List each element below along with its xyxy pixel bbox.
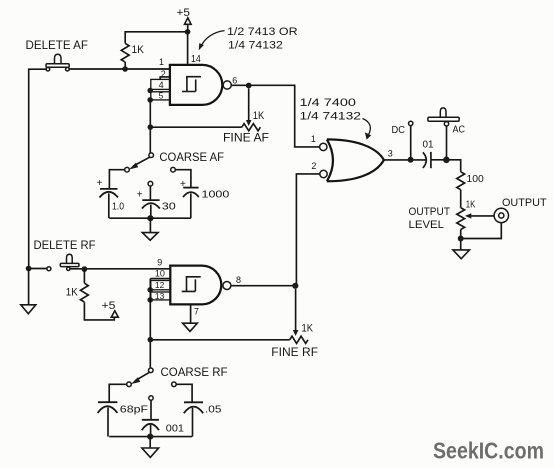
wire coarse AF bottom rail — [109, 217, 190, 219]
svg-text:1K: 1K — [466, 198, 476, 210]
wire U2 input 2 from U3 output — [296, 174, 319, 286]
node R1/pin1 — [122, 66, 128, 72]
resistor R4 1K (RF pull-up) — [66, 269, 89, 302]
capacitor C5 68pF — [98, 402, 149, 436]
svg-text:10: 10 — [155, 269, 165, 279]
svg-text:LEVEL: LEVEL — [409, 219, 445, 231]
wire coarse AF mid branch — [149, 186, 151, 200]
annotation arrow to U1 — [199, 31, 225, 51]
node FINE RF tap — [148, 337, 154, 343]
ground AF caps — [142, 218, 158, 240]
svg-text:.05: .05 — [205, 403, 222, 415]
node junction at +5 feed — [185, 29, 191, 35]
pin 9 label — [157, 258, 162, 268]
ground left rail — [21, 269, 36, 314]
label AC — [453, 123, 466, 135]
resistor R2 100 — [457, 172, 484, 190]
label 1/4 74132 (OR gate) — [300, 110, 362, 122]
svg-text:6: 6 — [232, 75, 237, 85]
svg-text:DELETE RF: DELETE RF — [34, 240, 96, 252]
resistor FINE AF 1K rheostat — [242, 110, 265, 131]
svg-text:5: 5 — [159, 91, 164, 101]
node DC tap — [408, 157, 414, 163]
wire pot bottom — [460, 230, 462, 250]
resistor R1 1K pull-up — [121, 43, 144, 62]
wire to RF button terminal — [29, 268, 47, 270]
node AC tap — [443, 157, 450, 164]
svg-text:30: 30 — [162, 201, 176, 213]
pin 4 boxed lead — [151, 79, 170, 89]
svg-text:DC: DC — [392, 124, 406, 136]
slide switch DC/AC — [428, 108, 459, 121]
wire U1 output to OR gate input 1 — [231, 85, 319, 147]
label DELETE AF — [26, 40, 89, 52]
op-amp U2 negative-OR gate 7400 — [327, 139, 384, 181]
pin 5 boxed lead — [151, 91, 170, 101]
svg-text:SeekIC.com: SeekIC.com — [433, 438, 544, 464]
label FINE AF — [223, 132, 269, 144]
pin 14 label — [191, 53, 201, 65]
node U3 output — [292, 283, 298, 289]
capacitor C3 1000 — [180, 179, 229, 218]
op-amp U1 Schmitt NAND 7413 body — [170, 65, 222, 105]
selector switch COARSE AF — [125, 153, 176, 186]
U3 output bubble — [223, 282, 231, 290]
node 1K RF tap — [82, 266, 88, 272]
wire FINE AF — [150, 126, 242, 128]
label COARSE AF — [159, 152, 224, 164]
svg-text:68pF: 68pF — [120, 404, 148, 416]
label OUTPUT LEVEL — [409, 206, 451, 231]
DC terminal — [409, 121, 413, 160]
svg-text:9: 9 — [157, 258, 162, 268]
svg-text:1K: 1K — [66, 286, 78, 298]
pin 2 label OR — [311, 161, 316, 171]
node pin12 junction — [147, 287, 153, 293]
node U1 output — [246, 83, 252, 89]
node RF cap common — [147, 434, 153, 440]
svg-text:1K: 1K — [132, 44, 145, 56]
svg-text:COARSE AF: COARSE AF — [159, 152, 224, 164]
pin 1 label — [159, 57, 164, 67]
node pin13 junction — [147, 297, 153, 303]
wire U3 output to node — [231, 285, 295, 287]
svg-text:DELETE AF: DELETE AF — [26, 40, 89, 52]
svg-text:COARSE RF: COARSE RF — [161, 367, 228, 379]
wire R1 bottom to pin1 wire — [124, 62, 126, 69]
label COARSE RF — [161, 367, 228, 379]
AC terminal — [444, 122, 448, 160]
wire input rail U1 down to coarse switch — [149, 100, 151, 153]
pin 7 wire — [191, 304, 199, 323]
+5 supply arrow (RF) — [102, 300, 119, 317]
output jack J1 — [494, 208, 508, 222]
node pot/jack ground — [458, 236, 464, 242]
wiper arrow FINE AF — [246, 89, 252, 127]
svg-text:1: 1 — [159, 57, 164, 67]
node pin5 junction — [147, 97, 153, 103]
svg-text:7: 7 — [194, 306, 199, 316]
label OUTPUT — [502, 197, 547, 209]
svg-text:+: + — [97, 178, 103, 189]
wire input rail U3 down — [149, 279, 151, 368]
svg-text:1.0: 1.0 — [112, 201, 124, 213]
svg-text:13: 13 — [155, 291, 165, 301]
svg-text:1/4 7400: 1/4 7400 — [300, 97, 357, 109]
label DC — [392, 124, 406, 136]
node pin4 junction — [147, 88, 153, 94]
pot wiper arrow — [465, 213, 494, 218]
svg-text:FINE AF: FINE AF — [223, 132, 269, 144]
wire pin 14 supply — [187, 32, 189, 65]
svg-text:01: 01 — [423, 138, 434, 150]
svg-text:+5: +5 — [102, 300, 116, 312]
U1 output bubble — [223, 81, 231, 89]
annotation arrow to U2 — [363, 119, 372, 140]
svg-text:1/4 74132: 1/4 74132 — [300, 110, 362, 122]
pin 13 boxed lead — [151, 291, 171, 301]
node left rail / delete RF — [26, 266, 32, 272]
label 1/4 7400 — [300, 97, 357, 109]
svg-text:FINE RF: FINE RF — [271, 347, 318, 359]
capacitor C4 .01 coupling — [423, 138, 434, 168]
svg-text:1000: 1000 — [202, 188, 230, 200]
wire S1 to gate U1 pin 1 — [69, 68, 170, 70]
svg-text:2: 2 — [311, 161, 316, 171]
ground RF caps — [142, 437, 159, 458]
wire FINE RF — [150, 339, 289, 341]
ground pin 7 — [183, 323, 198, 331]
+5 supply arrow (top) — [177, 7, 192, 32]
svg-text:OUTPUT: OUTPUT — [409, 206, 451, 218]
pin 12 boxed lead — [151, 280, 171, 290]
U2 input bubble 1 — [320, 143, 327, 150]
label FINE RF — [271, 347, 318, 359]
pin 6 label — [232, 75, 237, 85]
pushbutton switch S2 (DELETE RF) — [60, 254, 79, 270]
wiper arrow FINE RF — [293, 289, 299, 336]
pin 8 label — [236, 275, 241, 285]
svg-text:8: 8 — [236, 275, 241, 285]
RF button left terminal — [47, 267, 51, 271]
wire coarse RF mid branch — [150, 400, 152, 420]
node AF cap common — [147, 215, 153, 221]
watermark SeekIC.com — [433, 438, 544, 464]
wire coarse RF right branch — [176, 384, 192, 402]
svg-text:1K: 1K — [302, 323, 314, 335]
U2 input bubble 2 — [320, 170, 327, 177]
wire U2 output to coupling cap — [384, 159, 426, 161]
label 1/4 74132 — [228, 40, 283, 52]
wire jack to pot bottom — [461, 223, 502, 239]
svg-text:AC: AC — [453, 123, 466, 135]
wire coarse RF bottom rail — [109, 436, 192, 438]
potentiometer R3 1K output level — [457, 198, 475, 229]
wire +5 node to resistor R1 top — [125, 32, 187, 44]
wire R4 to +5 arrow — [84, 302, 114, 320]
resistor FINE RF 1K rheostat — [290, 323, 314, 344]
capacitor C1 1.0 — [97, 178, 125, 218]
node FINE AF tap — [148, 124, 154, 130]
wire left rail top to S1 — [29, 69, 46, 268]
op-amp U3 Schmitt NAND body — [170, 266, 221, 305]
svg-text:12: 12 — [155, 280, 165, 290]
wire R2 to pot — [460, 190, 462, 208]
svg-text:2: 2 — [161, 69, 166, 79]
wire cap to corner — [431, 160, 461, 172]
wire S2 to U3 pin 9 — [70, 268, 170, 270]
capacitor C7 .05 — [184, 402, 222, 436]
capacitor C2 30 — [137, 190, 176, 219]
svg-text:14: 14 — [191, 53, 201, 65]
svg-text:3: 3 — [388, 149, 393, 159]
wire coarse AF right branch — [175, 170, 191, 188]
label DELETE RF — [34, 240, 96, 252]
svg-text:OUTPUT: OUTPUT — [502, 197, 547, 209]
svg-text:001: 001 — [166, 423, 184, 435]
svg-text:4: 4 — [159, 80, 164, 90]
capacitor C6 001 — [142, 420, 184, 437]
pin 2 stub — [160, 69, 170, 79]
svg-text:1/4 74132: 1/4 74132 — [228, 40, 283, 52]
svg-text:1/2 7413 OR: 1/2 7413 OR — [227, 26, 298, 38]
label 1/2 7413 OR — [227, 26, 298, 38]
wire coarse RF left branch — [109, 384, 127, 402]
pin 10 lead — [150, 269, 170, 279]
wire coarse AF left branch — [109, 170, 124, 189]
selector switch COARSE RF — [127, 368, 177, 400]
pin 3 label — [388, 149, 393, 159]
svg-text:100: 100 — [467, 173, 484, 185]
svg-text:+: + — [137, 190, 143, 201]
svg-text:1: 1 — [311, 134, 316, 144]
ground output — [453, 250, 470, 259]
svg-text:1K: 1K — [253, 110, 265, 122]
pin 1 label OR — [311, 134, 316, 144]
pushbutton switch S1 (DELETE AF) — [46, 54, 69, 71]
